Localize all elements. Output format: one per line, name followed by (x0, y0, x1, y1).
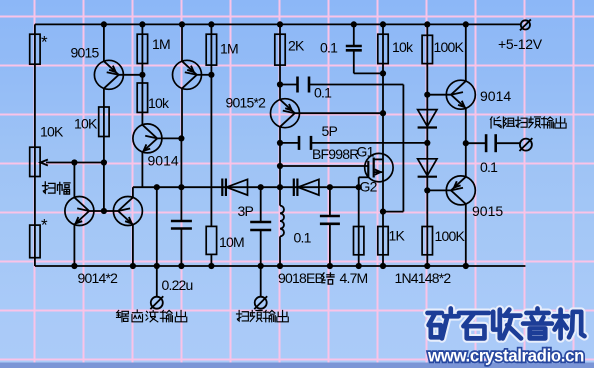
svg-text:10k: 10k (148, 95, 170, 111)
svg-text:0.1: 0.1 (480, 159, 498, 175)
svg-text:G2: G2 (360, 179, 378, 195)
svg-text:0.1: 0.1 (320, 40, 338, 56)
svg-text:*: * (41, 33, 48, 52)
svg-text:10K: 10K (40, 124, 64, 140)
svg-text:1N4148*2: 1N4148*2 (395, 270, 452, 286)
svg-text:10k: 10k (392, 39, 414, 55)
svg-text:0.22u: 0.22u (162, 277, 193, 293)
svg-text:10K: 10K (74, 116, 98, 132)
svg-text:0.1: 0.1 (314, 85, 332, 101)
svg-text:9015: 9015 (472, 203, 503, 219)
svg-text:+5-12V: +5-12V (498, 36, 543, 52)
svg-text:9015*2: 9015*2 (226, 95, 267, 111)
svg-text:9014*2: 9014*2 (78, 270, 119, 286)
svg-text:9014: 9014 (148, 153, 179, 169)
svg-text:1M: 1M (220, 41, 238, 57)
svg-text:*: * (41, 216, 48, 235)
svg-text:100K: 100K (434, 39, 465, 55)
svg-text:10M: 10M (219, 234, 244, 250)
svg-text:9015: 9015 (71, 45, 100, 61)
svg-text:4.7M: 4.7M (340, 270, 368, 286)
svg-text:3P: 3P (238, 203, 254, 219)
svg-text:0.1: 0.1 (294, 230, 312, 246)
svg-text:1K: 1K (389, 228, 406, 244)
svg-text:9018EB: 9018EB (278, 270, 323, 286)
svg-text:100K: 100K (435, 228, 466, 244)
svg-text:2K: 2K (288, 38, 305, 54)
svg-text:www.crystalradio.cn: www.crystalradio.cn (427, 346, 584, 366)
svg-text:9014: 9014 (480, 88, 511, 104)
svg-text:1M: 1M (152, 36, 170, 52)
svg-text:5P: 5P (322, 123, 338, 139)
svg-text:G1: G1 (357, 144, 375, 160)
svg-text:BF998R: BF998R (312, 146, 359, 162)
